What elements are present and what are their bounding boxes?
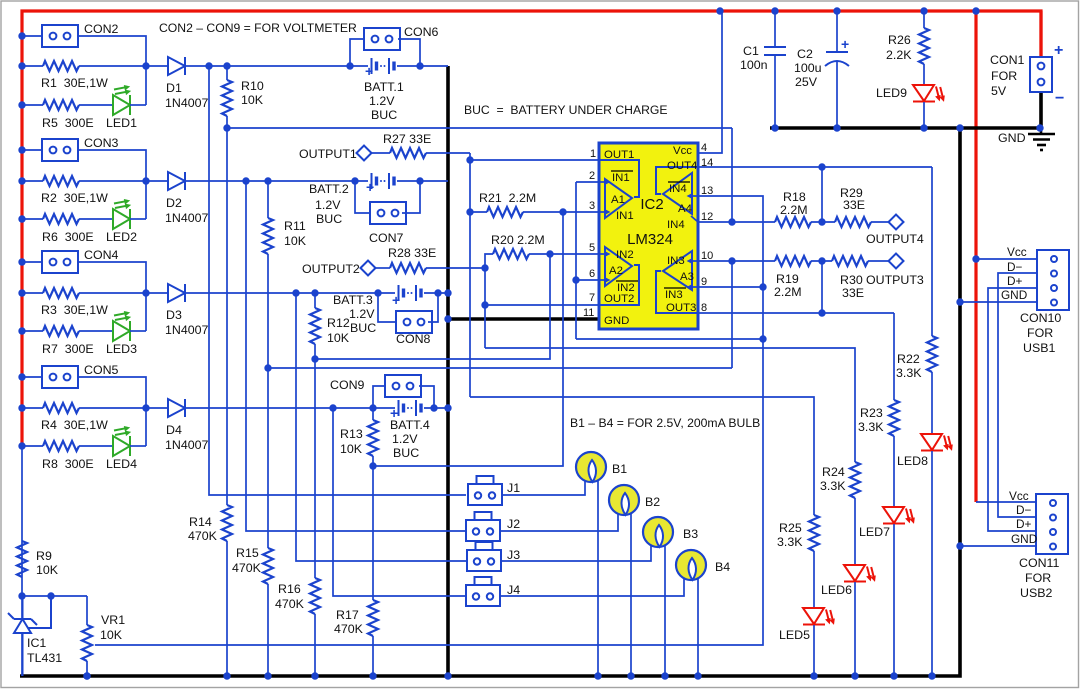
svg-text:D−: D−: [1007, 260, 1023, 274]
svg-text:FOR: FOR: [1025, 571, 1051, 585]
connector CON6: [364, 28, 400, 50]
LED LED2 (green): [113, 199, 131, 229]
wire LED9 to GND: [923, 102, 925, 128]
svg-text:LED1: LED1: [106, 116, 137, 130]
junction on left rail: [18, 177, 25, 184]
wire channel3 to J3: [296, 293, 467, 561]
junction on GND bottom rail: [661, 672, 668, 679]
resistor R16 470K: [314, 359, 316, 578]
svg-text:C1: C1: [743, 44, 759, 58]
svg-text:7: 7: [589, 292, 595, 304]
svg-text:3.3K: 3.3K: [896, 366, 922, 380]
svg-text:OUTPUT1: OUTPUT1: [299, 147, 357, 161]
junction on GND bottom rail: [444, 672, 451, 679]
svg-text:+: +: [841, 36, 849, 52]
svg-text:5V: 5V: [991, 84, 1007, 98]
svg-text:D−: D−: [1016, 503, 1032, 517]
svg-text:LED9: LED9: [876, 86, 907, 100]
junction on GND top-right: [956, 124, 963, 131]
wire +5V red rail top/left: [22, 11, 1041, 446]
wire R3 left: [22, 292, 43, 294]
junction OUT3 feedback: [818, 309, 825, 316]
svg-text:OUT3: OUT3: [666, 302, 696, 314]
junction on left rail: [18, 62, 25, 69]
svg-text:D+: D+: [1016, 517, 1032, 531]
svg-text:FOR: FOR: [991, 69, 1017, 83]
junction on left rail: [18, 32, 25, 39]
wire channel1 row to BATT.1: [186, 65, 368, 67]
junction channel2 row: [416, 177, 423, 184]
wire OUT1 net to LED5 column: [470, 397, 814, 515]
wire CON7 left leg: [355, 181, 370, 213]
resistor R20 2.2M: [529, 253, 550, 255]
wire bus up to pin10: [731, 261, 733, 368]
junction channel4 row: [369, 404, 376, 411]
terminal OUTPUT4: [889, 215, 904, 230]
svg-text:R26: R26: [888, 33, 911, 47]
svg-text:B3: B3: [683, 527, 698, 541]
svg-text:10K: 10K: [340, 442, 363, 456]
node channel2 junction: [142, 177, 149, 184]
resistor R30 33E: [832, 256, 868, 266]
wire OUT3 to feedback node: [821, 261, 823, 313]
wire CON7 right leg: [402, 181, 420, 213]
resistor R12 10K: [314, 293, 316, 308]
svg-text:1.2V: 1.2V: [315, 198, 341, 212]
svg-text:1.2V: 1.2V: [349, 307, 375, 321]
resistor R8: [43, 441, 79, 451]
junction on GND bottom rail: [594, 672, 601, 679]
wire R9 to VR1 top: [22, 595, 87, 597]
wire LED7 to GND: [893, 524, 895, 676]
jumper J1: [468, 476, 502, 505]
bulb B3: [643, 517, 673, 547]
wire CON9 right leg: [419, 386, 434, 408]
svg-text:CON9: CON9: [330, 378, 365, 392]
wire GND to CON11: [960, 545, 1036, 547]
wire pin5 west: [550, 253, 599, 255]
svg-text:A3: A3: [680, 271, 694, 283]
shunt regulator IC1 TL431: [8, 596, 51, 676]
svg-text:J1: J1: [507, 481, 520, 495]
resistor R13 10K: [372, 408, 374, 420]
wire CON3 to node: [78, 150, 146, 219]
svg-text:Vcc: Vcc: [1007, 245, 1027, 259]
svg-text:470K: 470K: [232, 561, 262, 575]
svg-text:R7 300E: R7 300E: [42, 342, 94, 356]
junction channel1 row: [205, 62, 212, 69]
svg-text:BUC: BUC: [371, 108, 397, 122]
wire R8 left: [22, 445, 43, 447]
svg-text:C2: C2: [797, 47, 813, 61]
svg-text:6: 6: [589, 268, 595, 280]
svg-text:1N4007: 1N4007: [165, 323, 209, 337]
svg-text:OUT4: OUT4: [667, 160, 697, 172]
svg-text:D3: D3: [166, 308, 182, 322]
connector CON8: [396, 311, 432, 333]
svg-text:R2 30E,1W: R2 30E,1W: [41, 191, 108, 205]
wire pin10 row: [698, 260, 775, 262]
svg-text:+: +: [366, 179, 374, 195]
svg-text:B1 – B4 = FOR 2.5V, 200mA BULB: B1 – B4 = FOR 2.5V, 200mA BULB: [570, 416, 760, 430]
junction on GND bottom rail: [890, 672, 897, 679]
svg-text:VR1: VR1: [101, 613, 125, 627]
svg-text:J2: J2: [507, 517, 520, 531]
svg-text:LED8: LED8: [897, 454, 928, 468]
svg-text:10K: 10K: [36, 563, 59, 577]
svg-text:FOR: FOR: [1027, 326, 1053, 340]
svg-text:470K: 470K: [275, 597, 305, 611]
LED LED5 (red): [803, 608, 835, 625]
junction on left rail: [18, 289, 25, 296]
svg-text:10K: 10K: [284, 234, 307, 248]
svg-text:USB2: USB2: [1020, 586, 1052, 600]
wire R8 to LED4: [79, 445, 113, 447]
junction on left rail: [18, 373, 25, 380]
resistor R1: [43, 61, 79, 71]
LED LED4 (green): [113, 426, 131, 456]
junction on left rail: [18, 215, 25, 222]
battery BATT.4 1.2V: [399, 400, 422, 416]
wire CON2 to node: [78, 36, 146, 105]
node R9 bottom: [18, 592, 25, 599]
wire channel2 row to BATT.2: [186, 180, 368, 182]
svg-text:3.3K: 3.3K: [777, 535, 803, 549]
resistor R18 2.2M: [775, 217, 811, 227]
svg-text:R30: R30: [840, 273, 863, 287]
wire R1 left: [22, 65, 43, 67]
terminal OUTPUT2: [361, 261, 376, 276]
resistor R19 2.2M: [775, 256, 811, 266]
node R12 bottom / bus y359: [311, 355, 318, 362]
bulb B1: [576, 452, 606, 482]
svg-text:100n: 100n: [740, 58, 768, 72]
svg-text:3.3K: 3.3K: [820, 479, 846, 493]
jumper J3: [467, 542, 501, 571]
wire pin12 row: [698, 221, 775, 223]
junction on GND bottom rail: [369, 672, 376, 679]
wire R1 to D1: [79, 65, 168, 67]
wire inverting bus vertical: [575, 182, 577, 339]
node R13 bottom / bus y466: [369, 462, 376, 469]
svg-text:R20 2.2M: R20 2.2M: [491, 233, 545, 247]
wire CON4 left: [22, 261, 42, 263]
resistor R9 10K: [17, 541, 27, 577]
wire OUT2 net to LED6 column: [485, 348, 855, 462]
wire B2 to GND: [630, 513, 632, 676]
diode D4: [168, 399, 185, 417]
junction channel1 row: [416, 62, 423, 69]
junction channel2 row: [242, 177, 249, 184]
svg-text:CON4: CON4: [84, 248, 119, 262]
wire LED1 to node: [130, 104, 146, 106]
junction on GND bottom rail: [311, 672, 318, 679]
svg-text:470K: 470K: [334, 622, 364, 636]
svg-text:IN4: IN4: [669, 183, 687, 195]
resistor R10 10K: [226, 66, 228, 80]
junction on GND bottom rail: [223, 672, 230, 679]
wire comparator bus from R13 to pin3: [373, 212, 563, 466]
LED LED9 (red): [913, 85, 945, 102]
resistor R28 33E: [375, 267, 390, 269]
svg-text:2.2M: 2.2M: [780, 203, 808, 217]
wire channel2 to J2: [246, 181, 466, 531]
wire Vcc to CON11: [976, 501, 1036, 503]
resistor R14 470K: [226, 128, 228, 505]
junction ref bus y339: [759, 335, 766, 342]
op-amp A2: [605, 247, 632, 286]
svg-text:R19: R19: [776, 272, 799, 286]
LED LED6 (red): [844, 565, 876, 582]
svg-text:BUC = BATTERY UNDER CHARGE: BUC = BATTERY UNDER CHARGE: [464, 103, 668, 117]
svg-text:IN3: IN3: [667, 255, 685, 267]
op-amp A1 output route pin1: [599, 160, 639, 197]
svg-text:1N4007: 1N4007: [165, 96, 209, 110]
svg-text:11: 11: [583, 307, 594, 319]
junction at pin3 row: [559, 208, 566, 215]
junction channel3 row: [374, 289, 381, 296]
svg-text:3: 3: [589, 200, 595, 212]
connector CON4: [42, 251, 78, 273]
svg-text:R24: R24: [822, 465, 845, 479]
junction channel1 row: [346, 62, 353, 69]
svg-text:D4: D4: [166, 423, 182, 437]
svg-text:+: +: [392, 292, 400, 308]
node channel4 junction: [142, 404, 149, 411]
junction on +5V rail: [833, 7, 840, 14]
junction channel3 row: [292, 289, 299, 296]
junction R21 to OUT1 net: [466, 208, 473, 215]
junction R19/R30/OUT3: [818, 257, 825, 264]
wire pin4 Vcc to +5V rail: [698, 11, 722, 153]
node channel3 junction: [142, 289, 149, 296]
junction on left rail: [18, 146, 25, 153]
svg-text:GND: GND: [998, 131, 1026, 145]
svg-text:CON10: CON10: [1020, 311, 1061, 325]
svg-text:LED7: LED7: [859, 525, 890, 539]
diode D2: [168, 172, 185, 190]
node channel1 junction: [142, 62, 149, 69]
svg-text:D2: D2: [166, 196, 182, 210]
battery BATT.1 1.2V: [372, 58, 395, 74]
svg-text:33E: 33E: [842, 286, 864, 300]
connector CON10 (USB1): [1037, 250, 1069, 310]
op-amp A1: [605, 179, 632, 218]
junction on +5V rail: [972, 7, 979, 14]
resistor R17 470K: [372, 466, 374, 600]
wire inverting bus to ref: [576, 338, 764, 340]
svg-text:LED4: LED4: [106, 457, 137, 471]
connector CON1 (5V input): [1039, 11, 1042, 57]
svg-text:R28 33E: R28 33E: [388, 246, 436, 260]
op-amp A3: [663, 251, 692, 290]
svg-text:BUC: BUC: [350, 321, 376, 335]
battery BATT.2 1.2V: [372, 173, 395, 189]
IC2 inner pin stubs: [599, 182, 698, 287]
wire GND to CON10: [960, 301, 1037, 303]
wire pin3 west: [563, 211, 599, 213]
svg-text:R17: R17: [336, 608, 359, 622]
svg-text:R3 30E,1W: R3 30E,1W: [41, 303, 108, 317]
svg-text:+: +: [1054, 42, 1063, 59]
wire B3 to GND: [664, 545, 666, 676]
svg-text:−: −: [1055, 90, 1064, 107]
junction on +5V rail: [771, 7, 778, 14]
svg-text:CON8: CON8: [396, 332, 431, 346]
svg-text:R10: R10: [241, 79, 264, 93]
wire BATT.2 to black bus: [397, 180, 448, 182]
resistor R15 470K: [267, 368, 269, 548]
resistor R2: [43, 176, 79, 186]
svg-text:470K: 470K: [188, 529, 218, 543]
wire R19 to R30: [811, 260, 832, 262]
wire LED2 to node: [130, 218, 146, 220]
resistor R27 33E: [371, 152, 390, 154]
svg-text:1.2V: 1.2V: [392, 432, 418, 446]
svg-text:BATT.1: BATT.1: [364, 80, 404, 94]
wire black battery minus bus: [446, 66, 450, 676]
svg-text:OUTPUT4: OUTPUT4: [866, 232, 924, 246]
svg-text:D+: D+: [1007, 274, 1023, 288]
resistor R11 10K: [267, 181, 269, 218]
svg-text:IC1: IC1: [27, 636, 46, 650]
svg-text:BUC: BUC: [316, 212, 342, 226]
terminal OUTPUT3: [889, 254, 904, 269]
svg-text:CON2: CON2: [84, 22, 119, 36]
svg-text:+: +: [390, 405, 398, 421]
svg-text:J4: J4: [507, 583, 520, 597]
junction channel3 row: [444, 289, 451, 296]
junction channel2 row: [351, 177, 358, 184]
svg-text:R8 300E: R8 300E: [42, 457, 94, 471]
wire black GND bottom rail: [20, 128, 960, 676]
svg-text:1N4007: 1N4007: [165, 211, 209, 225]
junction pin7/OUT2 net: [481, 301, 488, 308]
svg-text:R25: R25: [779, 521, 802, 535]
wire black to IC2 pin 11 GND: [448, 317, 600, 321]
svg-text:LM324: LM324: [627, 231, 673, 248]
LED LED7 (red): [883, 507, 915, 524]
svg-text:33E: 33E: [843, 198, 865, 212]
jumper J4: [466, 577, 500, 606]
svg-text:LED2: LED2: [106, 230, 137, 244]
connector CON9: [385, 375, 421, 397]
wire R2 left: [22, 180, 43, 182]
junction on GND bottom rail: [851, 672, 858, 679]
wire channel1 to J1: [209, 66, 466, 495]
svg-text:CON7: CON7: [369, 231, 404, 245]
junction on left rail: [18, 258, 25, 265]
wire pin1 OUT1 west: [470, 159, 599, 161]
wire pin2 west: [576, 181, 599, 183]
svg-text:B2: B2: [645, 495, 660, 509]
wire BATT.4 to black bus: [424, 407, 448, 409]
svg-text:IC2: IC2: [640, 196, 663, 213]
resistor R29 33E: [835, 217, 871, 227]
svg-text:B4: B4: [715, 560, 730, 574]
wire OUT3 to LED7 column: [893, 313, 895, 400]
svg-text:LED3: LED3: [106, 342, 137, 356]
wire Vcc to CON10: [976, 258, 1037, 260]
diode D1: [168, 57, 185, 75]
wire red +5V vertical to USB Vcc: [974, 11, 977, 502]
wire black CON1 minus to GND: [1039, 91, 1043, 129]
svg-text:BUC: BUC: [393, 446, 419, 460]
bulb B4: [676, 550, 706, 580]
wire B1 to GND: [597, 480, 599, 676]
junction on GND bottom rail: [928, 672, 935, 679]
junction R18/R29/OUT4: [818, 218, 825, 225]
wire channel3 row to BATT.3: [186, 292, 395, 294]
wire R18 to R29: [811, 221, 835, 223]
op-amp A2 output route pin7: [599, 265, 639, 305]
wire BATT.3 to black bus: [424, 292, 448, 294]
capacitor C1 100n: [774, 11, 776, 47]
wire comparator bus from R12 to pin5: [315, 254, 550, 359]
resistor R3: [43, 288, 79, 298]
wire LED5 to GND: [813, 625, 815, 676]
junction OUT4 feedback: [818, 163, 825, 170]
terminal OUTPUT1: [357, 146, 372, 161]
wire pin14 OUT4 row: [698, 166, 932, 168]
svg-text:GND: GND: [1001, 288, 1027, 302]
junction IC1 ref: [47, 592, 54, 599]
junction on GND bottom rail: [83, 672, 90, 679]
svg-text:IN2: IN2: [616, 249, 634, 261]
svg-text:CON6: CON6: [404, 25, 439, 39]
svg-text:R16: R16: [278, 582, 301, 596]
resistor R7: [43, 326, 79, 336]
svg-text:A1: A1: [611, 194, 625, 206]
wire CON3 left: [22, 149, 42, 151]
svg-text:R1 30E,1W: R1 30E,1W: [41, 76, 108, 90]
bulb B2: [609, 485, 639, 515]
wire CON5 to node: [78, 377, 146, 446]
junction on GND bottom rail: [810, 672, 817, 679]
ground symbol: [1028, 128, 1055, 150]
svg-text:D1: D1: [166, 81, 182, 95]
wire R3 to D3: [79, 292, 168, 294]
junction on left rail: [18, 101, 25, 108]
svg-text:R12: R12: [327, 316, 350, 330]
svg-text:CON5: CON5: [84, 363, 119, 377]
op-amp A4: [663, 173, 692, 214]
junction at pin10 row: [728, 257, 735, 264]
wire CON2 left: [22, 35, 42, 37]
wire R2 to D2: [79, 180, 168, 182]
wire comparator bus from R11: [268, 367, 732, 369]
wire J3 to bulb B3: [501, 546, 651, 561]
svg-text:A2: A2: [609, 265, 623, 277]
junction channel4 row: [430, 404, 437, 411]
battery BATT.3 1.2V: [399, 285, 422, 301]
junction at pin12 row: [728, 218, 735, 225]
wire B4 to GND: [697, 578, 699, 676]
svg-text:R14: R14: [189, 515, 212, 529]
wire R4 left: [22, 407, 43, 409]
svg-text:OUT2: OUT2: [604, 293, 634, 305]
svg-text:CON11: CON11: [1019, 556, 1060, 570]
wire D- CON10 to CON11: [998, 273, 1037, 517]
wire pin7 OUT2 west: [485, 304, 599, 306]
svg-text:2: 2: [589, 170, 595, 182]
svg-text:1.2V: 1.2V: [369, 94, 395, 108]
svg-text:2.2K: 2.2K: [886, 48, 912, 62]
junction OUT1: [466, 156, 473, 163]
junction channel3 row: [434, 289, 441, 296]
svg-text:2.2M: 2.2M: [774, 285, 802, 299]
svg-text:CON3: CON3: [84, 136, 119, 150]
